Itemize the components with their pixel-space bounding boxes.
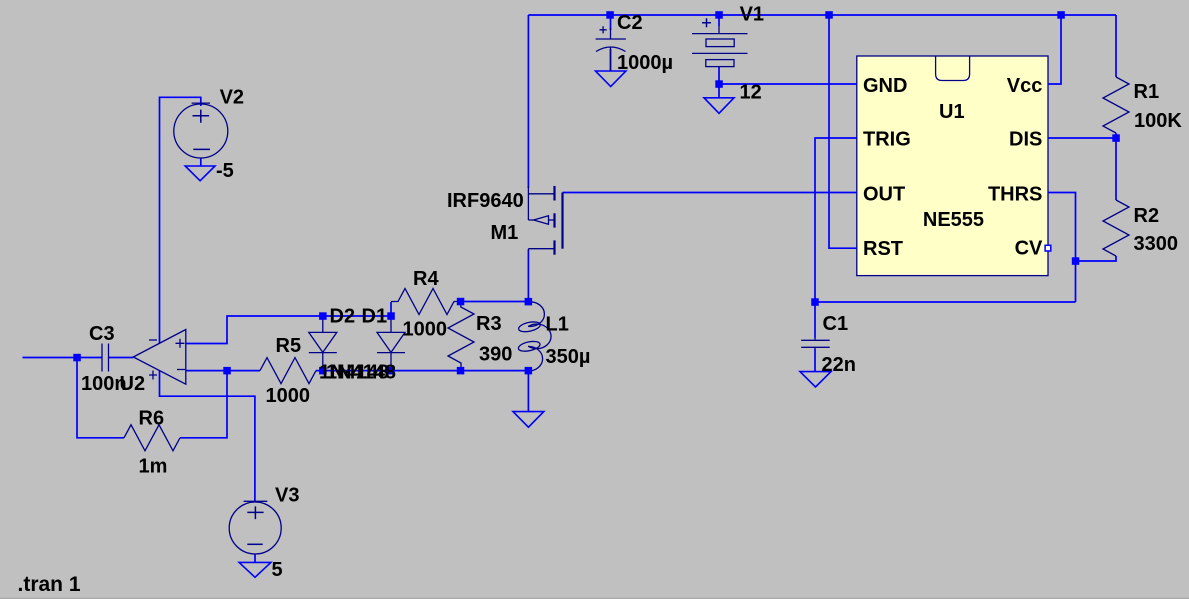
svg-text:D2: D2 <box>330 306 356 328</box>
svg-text:TRIG: TRIG <box>863 128 911 150</box>
svg-text:C3: C3 <box>89 323 115 345</box>
svg-text:THRS: THRS <box>988 183 1042 205</box>
svg-text:V1: V1 <box>740 4 764 26</box>
svg-text:350µ: 350µ <box>546 346 591 368</box>
svg-text:R2: R2 <box>1134 205 1160 227</box>
svg-text:GND: GND <box>863 75 907 97</box>
svg-text:R3: R3 <box>476 313 502 335</box>
svg-text:-5: -5 <box>216 160 234 182</box>
svg-text:1m: 1m <box>139 456 168 478</box>
svg-text:U2: U2 <box>120 373 146 395</box>
svg-text:5: 5 <box>272 559 283 581</box>
svg-text:L1: L1 <box>546 314 569 336</box>
svg-text:U1: U1 <box>939 101 965 123</box>
svg-text:D1: D1 <box>362 306 388 328</box>
svg-text:R1: R1 <box>1134 81 1160 103</box>
svg-text:Vcc: Vcc <box>1007 75 1043 97</box>
svg-text:C2: C2 <box>617 12 643 34</box>
svg-text:NE555: NE555 <box>923 209 984 231</box>
svg-text:R6: R6 <box>139 408 165 430</box>
svg-text:R5: R5 <box>276 335 302 357</box>
svg-text:390: 390 <box>479 344 512 366</box>
svg-text:M1: M1 <box>491 222 519 244</box>
svg-text:OUT: OUT <box>863 183 905 205</box>
svg-text:IRF9640: IRF9640 <box>447 190 524 212</box>
svg-text:1N4148: 1N4148 <box>326 362 396 384</box>
svg-text:100K: 100K <box>1134 110 1182 132</box>
svg-text:C1: C1 <box>823 313 849 335</box>
svg-text:1000µ: 1000µ <box>617 52 673 74</box>
svg-text:R4: R4 <box>413 268 439 290</box>
svg-text:3300: 3300 <box>1134 233 1179 255</box>
svg-text:V3: V3 <box>275 485 299 507</box>
svg-text:DIS: DIS <box>1009 128 1042 150</box>
svg-text:.tran 1: .tran 1 <box>18 573 81 596</box>
svg-text:22n: 22n <box>822 354 856 376</box>
svg-text:V2: V2 <box>220 86 244 108</box>
svg-text:1000: 1000 <box>403 319 448 341</box>
svg-text:12: 12 <box>740 82 762 104</box>
svg-text:CV: CV <box>1015 238 1043 260</box>
svg-text:RST: RST <box>863 238 903 260</box>
svg-text:1000: 1000 <box>266 385 311 407</box>
